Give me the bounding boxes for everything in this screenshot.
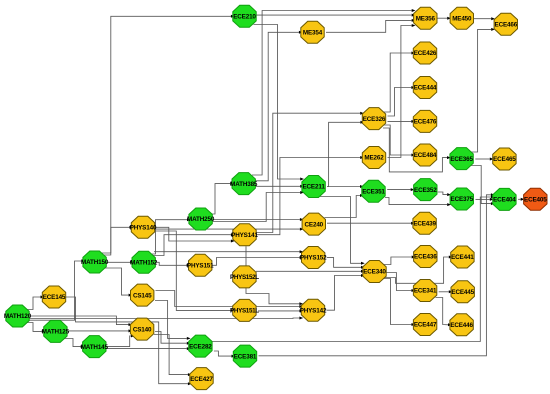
- wire MATH150->CS145: [104, 268, 132, 297]
- wire ECE145->ECE427: [65, 297, 192, 385]
- wire ECE210->ME356: [256, 14, 415, 17]
- wire PHYS141->PHYS142: [246, 246, 303, 305]
- wire MATH250->ECE211: [212, 191, 304, 222]
- node PHYS141: [231, 224, 258, 246]
- node ECE340: [363, 261, 387, 283]
- wire MATH150->ECE210: [101, 15, 235, 253]
- wire ECE326->ECE444: [388, 86, 416, 116]
- node MATH385: [230, 173, 258, 195]
- wire MATH250->MATH385: [210, 182, 234, 214]
- svg-text:ECE210: ECE210: [233, 14, 256, 21]
- svg-text:ECE375: ECE375: [451, 196, 474, 203]
- wire MATH150->MATH152: [106, 261, 134, 264]
- wire ECE365->ECE466: [471, 28, 495, 152]
- wire MATH120->MATH125: [27, 323, 46, 333]
- svg-text:PHYS152: PHYS152: [300, 255, 327, 262]
- svg-text:ECE436: ECE436: [414, 254, 437, 261]
- wire MATH120->MATH150: [29, 260, 85, 321]
- wire ECE404->ECE405: [518, 198, 524, 201]
- svg-text:ECE381: ECE381: [234, 353, 257, 360]
- wire MATH152->PHYS151: [155, 262, 191, 267]
- wire ECE340->ECE436: [384, 256, 416, 265]
- wire ECE340->ECE447: [384, 279, 416, 327]
- svg-text:ECE444: ECE444: [414, 85, 437, 92]
- node ECE365: [450, 148, 474, 170]
- svg-text:ECE445: ECE445: [451, 289, 474, 296]
- wire MATH152->PHYS152: [154, 250, 303, 253]
- wire PHYS151->PHYS152: [212, 256, 304, 265]
- wire ECE211->ECE340: [320, 197, 365, 265]
- wire ME262->ME356: [388, 24, 416, 158]
- wire ECE326->ECE426: [384, 52, 415, 113]
- node ECE447: [413, 314, 437, 336]
- node ECE426: [413, 42, 437, 64]
- wire MATH152->MATH250: [150, 218, 191, 254]
- svg-text:ECE404: ECE404: [493, 197, 516, 204]
- node PHYS152: [300, 247, 327, 269]
- wire PHYS140->PHYS151L: [152, 231, 234, 312]
- node ECE282: [189, 335, 213, 357]
- wire MATH152->PHYS141: [151, 233, 235, 255]
- wire ECE282->ECE404: [212, 196, 495, 342]
- node MATH145: [81, 336, 109, 358]
- svg-text:ECE484: ECE484: [414, 152, 437, 159]
- node MATH125: [42, 320, 70, 342]
- node PHYS151: [187, 254, 214, 276]
- node MATH120: [4, 305, 32, 327]
- node ECE439: [413, 212, 437, 234]
- node ECE351: [362, 180, 386, 202]
- svg-text:CS145: CS145: [133, 292, 152, 299]
- node CS145: [131, 284, 154, 306]
- node ECE444: [413, 77, 437, 99]
- node ME450: [450, 7, 473, 29]
- wire CS140->ECE427: [154, 335, 192, 377]
- node ECE445: [451, 281, 475, 303]
- node ECE465: [493, 148, 517, 170]
- svg-text:ECE466: ECE466: [495, 21, 518, 28]
- wire PHYS142->ECE340: [327, 274, 365, 310]
- svg-text:ECE426: ECE426: [414, 50, 437, 57]
- svg-text:PHYS151L: PHYS151L: [230, 308, 259, 315]
- wire ME356->ME450: [437, 17, 451, 20]
- node ECE352: [414, 179, 438, 201]
- svg-text:ECE465: ECE465: [493, 156, 516, 163]
- wire ECE365->ECE404: [471, 166, 495, 206]
- node ECE375: [450, 188, 474, 210]
- wire MATH145->CS140: [105, 334, 135, 346]
- wire ECE341->ECE446: [436, 298, 452, 327]
- node MATH150: [81, 251, 109, 273]
- node ECE210: [233, 5, 257, 27]
- node PHYS151L: [230, 299, 259, 321]
- svg-text:ECE326: ECE326: [363, 116, 386, 123]
- svg-text:MATH250: MATH250: [187, 216, 215, 223]
- wire MATH385->ME356: [252, 9, 416, 175]
- wire ECE210->ECE211: [254, 25, 305, 181]
- wire CS140->ECE282: [155, 332, 191, 345]
- wire CS145->PHYS142: [156, 291, 304, 309]
- svg-text:ECE352: ECE352: [414, 187, 437, 194]
- wire ECE326->ECE484: [384, 125, 415, 157]
- svg-text:CE240: CE240: [305, 221, 324, 228]
- node CE240: [302, 213, 325, 235]
- node ECE326: [362, 108, 386, 130]
- wire ECE341->ECE445: [439, 290, 453, 293]
- wire MATH150->PHYS140: [103, 226, 133, 255]
- node CS140: [130, 318, 153, 340]
- wire ECE340->ECE341: [386, 273, 415, 293]
- node ECE341: [413, 280, 437, 302]
- node ME356: [414, 7, 437, 29]
- node ECE436: [414, 246, 438, 268]
- wire MATH250->CE240: [212, 218, 304, 221]
- wire MATH120->CS140: [29, 316, 133, 326]
- node ECE405: [524, 188, 548, 210]
- wire MATH120->PHYS142: [29, 317, 304, 320]
- node PHYS152L: [230, 266, 259, 288]
- wire ECE340->ECE441: [385, 256, 453, 284]
- wire CE240->ECE439: [327, 222, 415, 225]
- wire ME450->ECE466: [474, 17, 496, 20]
- svg-text:ECE447: ECE447: [414, 322, 437, 329]
- node ECE404: [493, 188, 517, 210]
- node ME262: [362, 147, 385, 169]
- wire ME354->ME356: [326, 19, 416, 32]
- svg-text:ECE145: ECE145: [43, 294, 66, 301]
- node PHYS140: [130, 216, 157, 238]
- wire ECE351->ECE352: [387, 188, 414, 191]
- node MATH250: [187, 208, 215, 230]
- wire MATH385->ME354: [254, 31, 303, 181]
- svg-text:PHYS152L: PHYS152L: [230, 274, 259, 281]
- wire PHYS141->ME262: [256, 156, 364, 235]
- wire ECE326->ECE476: [388, 120, 416, 123]
- wire ECE351->ECE375: [385, 198, 451, 207]
- wire MATH120->ECE145: [27, 296, 45, 310]
- svg-text:ECE340: ECE340: [363, 269, 386, 276]
- wire ECE375->ECE404: [476, 198, 494, 201]
- svg-text:ECE446: ECE446: [450, 322, 473, 329]
- node ECE145: [42, 286, 66, 308]
- wire MATH385->ECE211: [256, 185, 304, 188]
- svg-text:ECE341: ECE341: [414, 288, 437, 295]
- wire CE240->ECE351: [325, 194, 364, 218]
- svg-text:MATH150: MATH150: [81, 259, 109, 266]
- svg-text:MATH125: MATH125: [42, 329, 70, 336]
- wire ECE211->ECE351: [327, 185, 364, 188]
- svg-text:ME354: ME354: [303, 30, 323, 37]
- svg-text:ECE441: ECE441: [451, 254, 474, 261]
- svg-text:ME356: ME356: [416, 15, 436, 22]
- svg-text:ME450: ME450: [452, 15, 472, 22]
- svg-text:PHYS140: PHYS140: [130, 225, 157, 232]
- svg-text:ECE405: ECE405: [524, 197, 547, 204]
- node ECE441: [451, 246, 475, 268]
- wire PHYS141->ECE326: [256, 112, 364, 233]
- node ECE484: [413, 144, 437, 166]
- svg-text:PHYS151: PHYS151: [187, 263, 214, 270]
- node MATH152: [130, 251, 158, 273]
- wire PHYS151L->PHYS142: [258, 309, 303, 312]
- svg-text:ECE351: ECE351: [362, 189, 385, 196]
- wire PHYS152->ECE340: [327, 258, 365, 269]
- svg-text:ECE476: ECE476: [414, 119, 437, 126]
- node ME354: [301, 21, 324, 43]
- svg-text:ECE427: ECE427: [190, 376, 213, 383]
- wire PHYS140->PHYS141: [154, 227, 235, 242]
- wire MATH145->ECE282: [105, 347, 190, 350]
- wire MATH125->CS140: [66, 329, 132, 332]
- svg-text:PHYS141: PHYS141: [231, 232, 258, 239]
- wire CS145->ECE282: [155, 301, 191, 340]
- svg-text:MATH152: MATH152: [130, 260, 158, 267]
- node ECE466: [494, 13, 518, 35]
- svg-text:ECE282: ECE282: [189, 343, 212, 350]
- svg-text:MATH385: MATH385: [230, 181, 258, 188]
- svg-text:PHYS142: PHYS142: [300, 307, 327, 314]
- svg-text:MATH145: MATH145: [81, 344, 109, 351]
- wire PHYS152L->ECE340: [256, 270, 365, 273]
- wire MATH125->MATH145: [65, 339, 85, 349]
- wire ECE352->ECE375: [438, 192, 451, 196]
- wire ECE381->ECE404: [259, 193, 495, 355]
- svg-text:ME262: ME262: [364, 155, 384, 162]
- node PHYS142: [300, 299, 327, 321]
- wire ECE326->ECE365: [383, 128, 451, 172]
- node ECE476: [413, 110, 437, 132]
- node ECE211: [302, 176, 325, 198]
- svg-text:ECE365: ECE365: [450, 156, 473, 163]
- svg-text:ECE439: ECE439: [413, 220, 436, 227]
- svg-text:MATH120: MATH120: [4, 313, 32, 320]
- svg-text:CS140: CS140: [133, 326, 152, 333]
- node ECE446: [450, 314, 474, 336]
- node ECE427: [190, 368, 214, 390]
- wire PHYS140->CE240: [154, 228, 304, 231]
- node ECE381: [233, 345, 257, 367]
- wire ECE282->ECE381: [214, 351, 235, 358]
- svg-text:ECE211: ECE211: [302, 184, 325, 191]
- wire ECE365->ECE465: [475, 158, 493, 161]
- wire ECE211->ECE326: [327, 121, 364, 187]
